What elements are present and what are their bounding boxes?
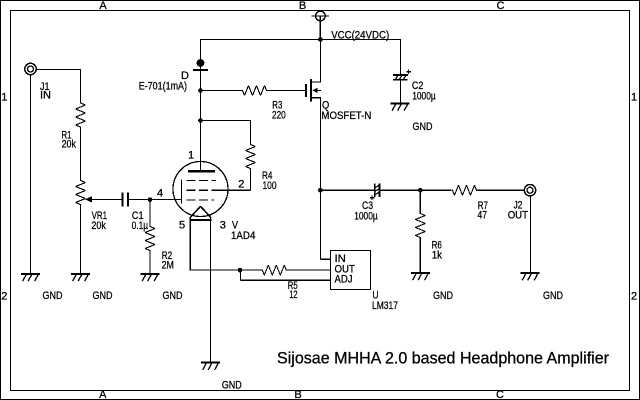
svg-text:220: 220 <box>272 109 286 121</box>
svg-text:20k: 20k <box>91 220 106 232</box>
transistor Q MOSFET-N <box>306 80 320 101</box>
tube grid dashes row 3 <box>187 199 214 201</box>
svg-text:LM317: LM317 <box>372 300 398 312</box>
svg-text:A: A <box>99 0 107 12</box>
node (C1/R2/grid) <box>148 197 153 202</box>
tube grid dashes row 2 <box>187 189 216 191</box>
svg-text:1: 1 <box>1 91 7 103</box>
wire R1 to VR1 <box>80 127 82 181</box>
svg-text:5: 5 <box>179 219 185 231</box>
wire R4 to tube pin 2 <box>216 169 251 191</box>
resistor R3 <box>243 86 267 96</box>
resistor R1 <box>76 103 86 127</box>
wire J1 to ground <box>30 74 32 273</box>
svg-text:GND: GND <box>413 121 433 133</box>
VR1 wiper arrow <box>85 196 92 202</box>
resistor R5 <box>262 265 286 275</box>
svg-text:4: 4 <box>157 187 163 199</box>
wire pin 5 down <box>189 218 191 271</box>
tube filament caret <box>190 206 211 217</box>
svg-text:ADJ: ADJ <box>335 274 353 286</box>
tube grid left bar <box>181 180 183 203</box>
svg-text:E-701(1mA): E-701(1mA) <box>139 80 187 92</box>
svg-text:GND: GND <box>222 380 242 392</box>
resistor R7 <box>453 185 477 195</box>
tube grid dashes row 1 <box>187 179 216 181</box>
ground (tube pin 3) <box>202 363 219 370</box>
wire R5 to node <box>240 269 262 271</box>
svg-text:1000µ: 1000µ <box>412 90 436 102</box>
wire node to R4 top <box>201 121 251 145</box>
tube plate bar (pin 1) <box>190 170 214 173</box>
svg-text:0.1µ: 0.1µ <box>132 220 149 232</box>
svg-text:GND: GND <box>163 290 183 302</box>
capacitor C1 <box>122 194 128 206</box>
wire C2 to ground <box>399 81 401 103</box>
wire R7 to J2 <box>477 189 525 191</box>
wire pin 3 to ground <box>210 218 212 363</box>
node VCC/drain junction <box>318 37 323 42</box>
potentiometer VR1 <box>76 181 86 205</box>
wire source down <box>319 98 321 190</box>
svg-text:Sijosae MHHA 2.0 based Headpho: Sijosae MHHA 2.0 based Headphone Amplifi… <box>277 349 609 368</box>
wire R3 to MOSFET gate <box>267 90 306 92</box>
wire D node to R3 <box>201 90 243 92</box>
svg-text:2: 2 <box>1 290 7 302</box>
svg-text:1: 1 <box>188 150 194 162</box>
ground (R6) <box>412 273 429 280</box>
VCC power symbol <box>312 11 328 39</box>
wire source node to C3 <box>320 189 374 191</box>
svg-text:12: 12 <box>289 289 297 301</box>
wire VCC rail <box>201 39 401 41</box>
node source/output junction <box>318 188 323 193</box>
svg-text:GND: GND <box>543 290 563 302</box>
diode D (CRD E-701) <box>194 59 207 70</box>
regulator U LM317 box <box>330 250 370 289</box>
svg-text:B: B <box>294 389 301 400</box>
connector J2 <box>524 185 535 196</box>
wire R2 to ground <box>149 251 151 274</box>
wire source to LM317 IN <box>320 190 330 259</box>
ground (VR1) <box>72 274 89 281</box>
ground (J1) <box>22 274 39 281</box>
svg-text:100: 100 <box>263 180 277 192</box>
tube filament base bar <box>190 219 211 221</box>
svg-text:A: A <box>99 389 107 400</box>
wire J2 to ground <box>529 196 531 273</box>
wire R6 to ground <box>419 238 421 273</box>
node D/R3 junction <box>198 88 203 93</box>
wire C3 to R7 <box>380 189 451 191</box>
svg-text:2: 2 <box>631 290 637 302</box>
wire node to R2 <box>149 200 151 227</box>
capacitor C2 <box>394 70 411 80</box>
wire C1 to node <box>129 199 150 201</box>
wire node to tube pin 4 <box>150 199 182 201</box>
node plate/R4 junction <box>198 118 203 123</box>
wire drain to rail <box>319 40 321 83</box>
resistor R2 <box>145 227 155 251</box>
wire node to tube pin 5 <box>190 269 240 271</box>
resistor R6 <box>415 214 425 238</box>
svg-text:GND: GND <box>433 290 453 302</box>
ground (R2) <box>142 274 159 281</box>
svg-text:47: 47 <box>478 210 488 222</box>
svg-text:20k: 20k <box>62 139 77 151</box>
svg-text:GND: GND <box>93 290 113 302</box>
svg-text:3: 3 <box>220 219 226 231</box>
connector J1 <box>25 63 36 74</box>
ground (C2) <box>392 103 409 110</box>
node R6 junction <box>418 188 423 193</box>
svg-text:2M: 2M <box>162 260 174 272</box>
ground (J2) <box>522 273 539 280</box>
svg-text:1: 1 <box>631 91 637 103</box>
svg-text:C: C <box>496 389 504 400</box>
svg-text:GND: GND <box>43 290 63 302</box>
svg-text:MOSFET-N: MOSFET-N <box>321 110 371 122</box>
wire LM317 OUT to R5 <box>286 269 330 271</box>
node R5/ADJ/filament junction <box>238 268 243 273</box>
tube V envelope <box>173 162 228 217</box>
wire rail to C2 <box>399 40 401 75</box>
svg-text:1k: 1k <box>432 249 443 261</box>
wire J1 to R1 top <box>36 69 81 103</box>
wire VR1 to ground <box>80 205 82 274</box>
wire rail down to diode D and tube pin 1 <box>200 40 202 171</box>
wire wiper to C1 <box>92 199 123 201</box>
svg-text:B: B <box>299 0 306 12</box>
svg-text:1AD4: 1AD4 <box>231 230 255 242</box>
capacitor C3 <box>370 185 379 200</box>
svg-text:OUT: OUT <box>508 209 529 221</box>
wire ADJ to node <box>241 270 331 280</box>
resistor R4 <box>246 145 256 169</box>
svg-text:C: C <box>497 0 505 12</box>
wire node to R6 <box>419 190 421 213</box>
svg-text:2: 2 <box>238 179 244 191</box>
svg-text:IN: IN <box>40 89 51 101</box>
svg-text:1000µ: 1000µ <box>354 210 378 222</box>
